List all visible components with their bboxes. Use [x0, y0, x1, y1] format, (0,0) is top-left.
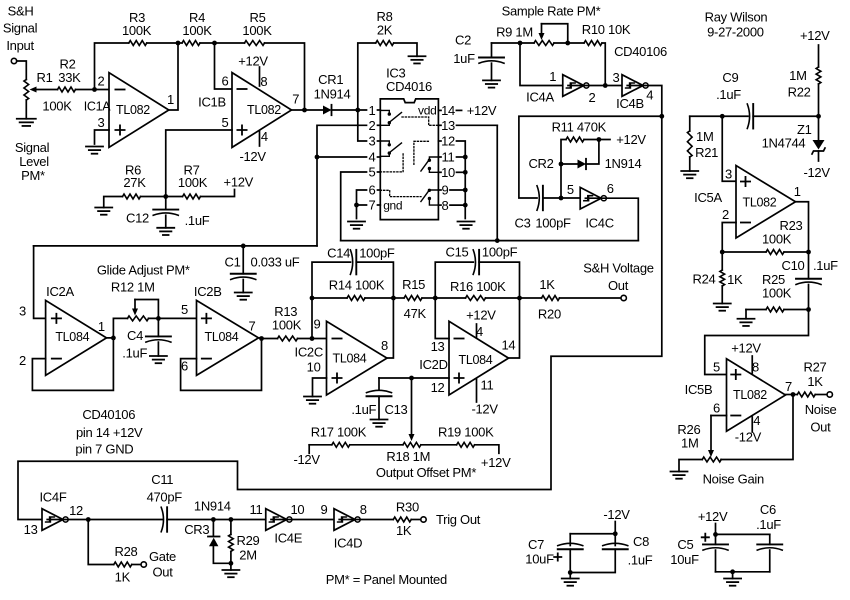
svg-text:2: 2 — [722, 207, 729, 222]
svg-text:+12V: +12V — [466, 308, 496, 323]
svg-text:11: 11 — [442, 150, 455, 165]
svg-text:9: 9 — [442, 183, 449, 198]
wire R12 to IC2B pin5 — [149, 317, 197, 319]
wire IC2A out to R12 — [107, 318, 128, 338]
svg-text:3: 3 — [725, 166, 732, 181]
node R12/C4 — [156, 316, 161, 321]
IC1B +12V pin 8 — [238, 54, 268, 89]
svg-text:2: 2 — [369, 118, 376, 133]
svg-text:C12: C12 — [126, 211, 149, 226]
svg-text:R27: R27 — [804, 360, 827, 375]
ground C7/C8 — [562, 573, 579, 586]
svg-text:R22: R22 — [788, 85, 811, 100]
IC2D +12V pin 4 — [466, 308, 496, 339]
svg-text:R21: R21 — [695, 145, 718, 160]
svg-text:.1uF: .1uF — [122, 345, 147, 360]
S&H Voltage Out terminal — [621, 295, 626, 300]
node R14 left — [310, 296, 315, 301]
wire IC4D to R30 — [339, 519, 393, 521]
S&H Voltage Out label — [583, 261, 653, 294]
node IC4F out/gate — [86, 517, 91, 522]
-12V label Z1 — [803, 165, 830, 180]
capacitor C10 — [782, 252, 839, 310]
svg-text:IC2C: IC2C — [295, 345, 323, 360]
resistor R8 — [358, 9, 417, 110]
hold node wire — [34, 245, 317, 247]
svg-text:9: 9 — [321, 502, 328, 517]
svg-text:6: 6 — [181, 359, 188, 374]
resistor R3 — [122, 10, 152, 45]
svg-text:CR2: CR2 — [528, 156, 553, 171]
svg-text:4: 4 — [476, 324, 483, 339]
inverter IC4D — [321, 502, 367, 551]
svg-text:C10: C10 — [782, 258, 805, 273]
capacitor C8 — [570, 534, 653, 573]
node R4/R5/IC1B pin6 — [212, 41, 217, 46]
inverter IC4F — [24, 490, 83, 538]
wire IC4E to IC4D — [271, 519, 334, 521]
svg-text:+12V: +12V — [481, 455, 511, 470]
wire IC3 pin5 control — [341, 172, 367, 241]
svg-text:5: 5 — [567, 182, 574, 197]
wire R11 to +12V — [584, 132, 646, 147]
wire IC3 pin7 to ground — [357, 205, 367, 219]
svg-text:3: 3 — [369, 134, 376, 149]
R12 wiper — [132, 300, 158, 319]
CD40106 label — [614, 44, 667, 59]
wire R13 to IC2C pin9 — [298, 338, 327, 340]
svg-text:CR3: CR3 — [184, 522, 209, 537]
wire IC2C output up — [387, 298, 393, 358]
svg-text:12: 12 — [441, 134, 455, 149]
capacitor C14 loop — [312, 246, 395, 298]
wire IC2B out — [259, 337, 278, 340]
svg-text:R9 1M: R9 1M — [496, 25, 533, 40]
resistor R22 — [788, 45, 821, 116]
svg-text:CD4016: CD4016 — [386, 79, 432, 94]
svg-text:10: 10 — [290, 502, 304, 517]
IC3 pin 1 — [369, 103, 381, 118]
svg-text:100K: 100K — [122, 23, 152, 38]
svg-text:10uF: 10uF — [670, 552, 699, 567]
wire R4 lead — [178, 42, 215, 44]
svg-text:14: 14 — [441, 103, 455, 118]
node R6/R7/C12 — [163, 194, 168, 199]
CD40106 pins note label — [75, 407, 143, 456]
wire input terminal to R1 — [17, 61, 27, 80]
node R23 left — [720, 250, 725, 255]
svg-text:+12V: +12V — [698, 509, 728, 524]
svg-text:11: 11 — [250, 502, 263, 517]
svg-text:5: 5 — [713, 360, 720, 375]
svg-text:1: 1 — [98, 319, 105, 334]
R26 wiper from IC5B pin6 — [708, 416, 727, 458]
Noise Out terminal — [827, 392, 832, 397]
svg-text:8: 8 — [442, 198, 449, 213]
wire C2 to R9 — [492, 42, 535, 44]
svg-text:TL082: TL082 — [743, 195, 777, 209]
resistor R29 — [229, 520, 260, 571]
svg-text:Ray Wilson: Ray Wilson — [705, 10, 768, 25]
node IC3 pin4 tap — [315, 155, 320, 160]
svg-text:6: 6 — [607, 181, 614, 196]
node IC1B out/R5 — [302, 108, 307, 113]
Trig Out label — [436, 512, 481, 527]
IC5B +12V pin 8 — [731, 341, 761, 375]
resistor R19 — [438, 425, 499, 454]
resistor R14 — [312, 278, 393, 301]
wire feedback to IC5B pin5 — [705, 310, 809, 375]
IC1B -12V pin 4 — [239, 129, 267, 164]
diode CR1 — [314, 72, 351, 115]
wire node up to R14 row — [311, 298, 313, 339]
IC3 pin 5 — [369, 165, 381, 180]
IC2B feedback wire — [181, 339, 262, 391]
resistor R11 — [552, 119, 607, 142]
wire CR1 to node — [332, 109, 367, 111]
wire IC2D output up — [509, 298, 520, 358]
IC3 pin 3 — [369, 134, 381, 149]
svg-text:IC4C: IC4C — [585, 216, 613, 231]
wire IC2D pin12 — [379, 377, 449, 379]
wire IC3 pin13 control drop — [496, 125, 498, 240]
IC3 pin 13 — [438, 118, 497, 133]
svg-text:7: 7 — [249, 318, 256, 333]
svg-text:3: 3 — [19, 304, 26, 319]
svg-text:1: 1 — [369, 103, 376, 118]
svg-text:7: 7 — [369, 198, 376, 213]
svg-text:vdd: vdd — [418, 104, 436, 118]
wire C11 to CR3 node — [167, 519, 266, 521]
ground C13 — [371, 420, 388, 427]
svg-text:C9: C9 — [722, 70, 738, 85]
IC3 switch 11-10 — [421, 157, 439, 172]
svg-text:C8: C8 — [633, 534, 649, 549]
IC3 control dotted line sw4 to pin6 — [380, 190, 421, 196]
svg-text:C13: C13 — [385, 402, 408, 417]
potentiometer R12 — [111, 279, 155, 321]
svg-text:2K: 2K — [377, 23, 393, 38]
potentiometer R26 — [677, 422, 721, 462]
IC3 switch 1-2 — [380, 110, 401, 125]
ground IC3 pins 6/7 — [348, 222, 365, 229]
wire IC1B pin5 to R6/R7 node — [166, 130, 232, 197]
resistor R30 — [393, 500, 419, 539]
svg-text:R13: R13 — [274, 304, 297, 319]
svg-text:3: 3 — [98, 115, 105, 130]
svg-text:Input: Input — [6, 38, 34, 53]
IC3 pin 9 — [438, 183, 467, 198]
resistor R2 — [58, 57, 82, 92]
node IC5B out — [791, 392, 796, 397]
wire R25 left to ground — [745, 310, 747, 319]
node IC4A out/R10 — [603, 83, 608, 88]
svg-text:2: 2 — [589, 90, 596, 105]
wire R30 to Trig Out — [411, 519, 421, 521]
svg-text:C3: C3 — [514, 216, 530, 231]
+12V supply label R22 — [800, 28, 830, 43]
svg-text:.1uF: .1uF — [813, 258, 838, 273]
svg-text:R29: R29 — [237, 533, 260, 548]
potentiometer R1 — [24, 70, 72, 119]
PM* note label — [326, 572, 447, 587]
wire R28 to Gate Out — [132, 564, 141, 566]
capacitor C7 — [525, 534, 582, 573]
svg-text:9: 9 — [314, 316, 321, 331]
svg-text:TL082: TL082 — [116, 103, 150, 117]
gate branch wire — [88, 520, 114, 565]
svg-text:2: 2 — [98, 74, 105, 89]
svg-text:5: 5 — [222, 115, 229, 130]
svg-text:5: 5 — [181, 302, 188, 317]
node C10/R25 — [806, 307, 811, 312]
svg-text:IC1B: IC1B — [198, 95, 226, 110]
svg-text:10: 10 — [307, 360, 321, 375]
wire node to IC4A input — [520, 43, 563, 86]
IC3 pin 14 +12V — [438, 103, 496, 118]
Noise Out label — [805, 402, 837, 435]
wire node down to IC1B pin6 — [215, 43, 233, 89]
svg-text:7: 7 — [292, 92, 299, 107]
wire IC3 pin6 to pin7 — [357, 190, 367, 205]
svg-text:47K: 47K — [404, 306, 427, 321]
R9 wiper — [539, 24, 568, 43]
svg-text:-12V: -12V — [603, 507, 630, 522]
svg-text:1: 1 — [794, 184, 801, 199]
wire IC4A to IC4B — [568, 85, 622, 87]
wire hold node to IC2A pin3 — [34, 246, 46, 319]
svg-text:R14 100K: R14 100K — [329, 278, 385, 293]
ground R21 — [681, 171, 698, 178]
svg-text:CD40106: CD40106 — [614, 44, 667, 59]
ground R26 — [671, 472, 688, 479]
resistor R24 — [693, 252, 744, 304]
svg-text:1K: 1K — [396, 523, 412, 538]
wire node to R18 wiper — [409, 378, 415, 441]
Glide Adjust PM* label — [97, 263, 190, 278]
svg-text:-12V: -12V — [735, 430, 762, 445]
IC3 pin 12 — [438, 134, 465, 157]
svg-text:R18 1M: R18 1M — [386, 449, 430, 464]
wire IC5A pin2 down — [722, 223, 736, 253]
svg-text:IC4D: IC4D — [334, 536, 362, 551]
wire C9 left — [690, 115, 748, 117]
ground IC1A pin3 — [86, 147, 103, 154]
wire osc loop top — [519, 116, 662, 198]
op-amp IC5A — [694, 166, 801, 239]
svg-text:100K: 100K — [762, 286, 792, 301]
wire R10 to IC4A out — [602, 43, 605, 86]
wire R6 to node — [141, 196, 166, 198]
IC2A feedback wire — [32, 338, 113, 391]
svg-text:4: 4 — [646, 87, 653, 102]
ground R1 — [17, 119, 36, 126]
IC3 label — [386, 66, 432, 94]
svg-text:8: 8 — [360, 502, 367, 517]
svg-text:Out: Out — [152, 565, 173, 580]
resistor R27 — [797, 360, 826, 397]
wire IC1B output — [292, 109, 324, 111]
svg-text:C5: C5 — [677, 537, 693, 552]
node R3/R4/IC1A out — [176, 41, 181, 46]
-12V label C7/C8 — [603, 507, 630, 522]
ground R25 — [738, 319, 755, 326]
svg-text:+12V: +12V — [467, 103, 497, 118]
svg-text:TL084: TL084 — [459, 353, 493, 367]
svg-text:PM*: PM* — [21, 168, 45, 183]
svg-text:9-27-2000: 9-27-2000 — [707, 25, 764, 40]
svg-text:Signal: Signal — [3, 21, 38, 36]
node IC2A out — [111, 336, 116, 341]
svg-text:4: 4 — [753, 413, 760, 428]
wire node down to IC1A output — [169, 43, 178, 110]
op-amp IC1A — [84, 73, 174, 148]
resistor R21 — [687, 116, 718, 171]
resistor R13 — [272, 304, 302, 341]
wire IC5B output — [786, 394, 798, 396]
wire R7 leads to +12V — [166, 175, 254, 197]
svg-text:R28: R28 — [115, 544, 138, 559]
svg-text:6: 6 — [369, 183, 376, 198]
inverter IC4B — [613, 70, 654, 111]
ground C1 — [235, 293, 252, 300]
svg-text:.1uF: .1uF — [628, 553, 653, 568]
svg-text:1N914: 1N914 — [605, 156, 642, 171]
resistor R5 — [242, 10, 272, 45]
capacitor C11 — [147, 472, 183, 532]
node CR1/R8/pin1/pin3 — [355, 108, 360, 113]
svg-text:1K: 1K — [727, 272, 743, 287]
resistor R28 — [114, 544, 138, 585]
ground CR3/R29 — [222, 570, 239, 577]
Gate Out terminal — [141, 562, 146, 567]
wire node up to R11/CR2 — [561, 140, 566, 199]
resistor R25 — [746, 272, 809, 312]
svg-text:470pF: 470pF — [147, 490, 183, 505]
svg-text:+12V: +12V — [224, 175, 254, 190]
node C8 top — [613, 531, 618, 536]
svg-text:R16 100K: R16 100K — [450, 279, 506, 294]
node C5 top — [713, 532, 718, 537]
svg-text:R19 100K: R19 100K — [438, 425, 494, 440]
wire -12V down — [614, 522, 616, 534]
svg-text:1K: 1K — [807, 374, 823, 389]
svg-text:+12V: +12V — [616, 132, 646, 147]
svg-text:100K: 100K — [762, 231, 792, 246]
potentiometer R9 — [496, 25, 554, 46]
svg-text:4: 4 — [261, 129, 268, 144]
capacitor C3 — [514, 186, 571, 231]
wire C3 to IC4C in — [543, 197, 580, 199]
svg-text:IC2D: IC2D — [419, 357, 447, 372]
op-amp IC2C — [295, 316, 388, 395]
svg-text:C1: C1 — [224, 254, 240, 269]
svg-text:IC2B: IC2B — [194, 284, 222, 299]
svg-text:11: 11 — [481, 378, 494, 393]
svg-text:Out: Out — [810, 420, 831, 435]
wire R26 left to ground — [679, 460, 702, 472]
node R11/CR2/+12V — [597, 137, 602, 142]
svg-text:Out: Out — [608, 278, 629, 293]
op-amp IC5B — [685, 359, 792, 432]
ground R6 — [95, 208, 112, 215]
svg-text:+12V: +12V — [800, 28, 830, 43]
svg-text:6: 6 — [222, 74, 229, 89]
svg-text:CD40106: CD40106 — [82, 407, 135, 422]
IC3 right rail to ground — [464, 157, 466, 219]
node R15/R16 — [433, 296, 438, 301]
svg-text:Level: Level — [19, 154, 49, 169]
wire +12V down — [715, 524, 717, 535]
svg-text:R15: R15 — [402, 277, 425, 292]
svg-text:1N914: 1N914 — [314, 86, 351, 101]
inverter IC4A — [526, 69, 595, 105]
node CR2 anode — [559, 162, 564, 167]
svg-text:C4: C4 — [127, 328, 143, 343]
svg-text:C14: C14 — [327, 246, 350, 261]
capacitor C6 — [756, 502, 782, 572]
svg-text:5: 5 — [369, 165, 376, 180]
IC3 pin 4 — [369, 150, 381, 165]
svg-text:1K: 1K — [115, 570, 131, 585]
capacitor C12 — [126, 197, 210, 229]
svg-text:.1uF: .1uF — [351, 402, 376, 417]
svg-text:1: 1 — [549, 69, 556, 84]
wire IC5B out to R26 — [721, 395, 793, 460]
wire R17 to R18 — [350, 444, 403, 446]
node IC4B out / osc loop — [659, 114, 664, 119]
IC3 control dotted line sw3 to pin12 — [414, 141, 430, 164]
wire R9 to R10 — [554, 42, 584, 44]
IC3 pin 2 — [369, 118, 381, 133]
svg-text:Output Offset PM*: Output Offset PM* — [376, 465, 476, 480]
node CR3 — [211, 517, 216, 522]
svg-text:1N4744: 1N4744 — [762, 136, 806, 151]
svg-text:100pF: 100pF — [482, 245, 518, 260]
svg-text:12: 12 — [69, 503, 83, 518]
wire IC3 pin4 — [317, 156, 367, 158]
IC3 switch 9-8 — [421, 189, 439, 206]
diode CR2 — [528, 140, 641, 172]
node R13/R14 — [310, 336, 315, 341]
node C9/R22/Z1 — [816, 114, 821, 119]
wire C5/C6 top — [716, 533, 770, 535]
svg-text:CR1: CR1 — [318, 72, 343, 87]
svg-text:+12V: +12V — [731, 341, 761, 356]
svg-text:100K: 100K — [242, 23, 272, 38]
wire R3 to node — [147, 42, 178, 44]
svg-text:100K: 100K — [182, 23, 212, 38]
resistor R10 — [582, 22, 631, 45]
svg-text:100K: 100K — [272, 318, 302, 333]
IC3 switch 3-4 — [380, 141, 401, 156]
wire C5/C6 bottom — [716, 571, 770, 573]
svg-text:10: 10 — [441, 165, 455, 180]
wire IC1A pin3 to ground — [95, 130, 110, 144]
svg-text:R12 1M: R12 1M — [111, 279, 155, 294]
svg-text:Noise Gain: Noise Gain — [703, 471, 764, 486]
svg-text:-12V: -12V — [293, 452, 320, 467]
node R14/R15 — [391, 296, 396, 301]
node IC2B out — [259, 336, 264, 341]
ground C4 — [150, 356, 167, 363]
resistor R7 — [178, 163, 208, 199]
wire R27 to Noise Out — [815, 394, 827, 396]
svg-text:13: 13 — [431, 339, 445, 354]
ground R24 — [714, 304, 731, 311]
IC3 pin 6 — [369, 183, 381, 198]
wire R5 leads — [215, 43, 305, 110]
